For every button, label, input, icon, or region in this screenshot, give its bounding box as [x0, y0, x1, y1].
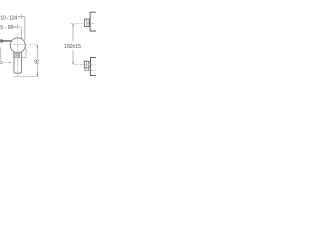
hatch block: [14, 52, 20, 58]
left extension line: [0, 48, 2, 62]
svg-text:92: 92: [34, 59, 39, 65]
vertical centerline: [17, 34, 19, 76]
outlet pipe: [14, 52, 21, 73]
lever knob: [0, 39, 2, 42]
svg-text:5 - 99: 5 - 99: [0, 25, 13, 31]
lever handle (side view): [3, 40, 12, 41]
extension tick 110-124: [21, 14, 23, 19]
top centerline: [71, 23, 96, 25]
leader from 2: [3, 61, 9, 63]
top nut: [85, 19, 90, 27]
arrow for 110-124: [18, 16, 21, 18]
front view: bottom boss: [91, 58, 97, 76]
right housing line: [21, 48, 26, 58]
svg-text:150±15: 150±15: [64, 44, 81, 50]
body circle (side view): [10, 38, 25, 53]
horizontal centerline: [9, 44, 38, 46]
bottom centerline: [75, 64, 96, 66]
leader 110-124: [22, 17, 25, 41]
leader 85-99: [18, 27, 22, 39]
extension tick 85-99: [17, 24, 19, 29]
svg-text:10 - 124: 10 - 124: [0, 16, 17, 22]
bottom nut stub: [85, 68, 90, 71]
dim line 92: [36, 45, 38, 77]
bottom extension line: [13, 76, 39, 78]
front view: top boss: [90, 12, 96, 31]
dim line 150±15: [72, 24, 74, 65]
svg-text:2: 2: [0, 60, 3, 66]
bottom nut: [84, 61, 89, 68]
arrow for 85-99: [14, 26, 17, 28]
